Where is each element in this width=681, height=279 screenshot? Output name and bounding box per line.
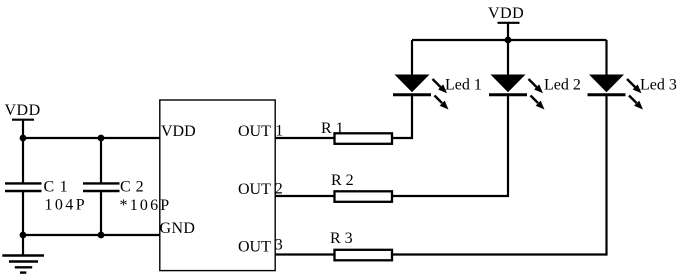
svg-text:C 2: C 2: [120, 178, 144, 195]
power symbol VDD (left): [5, 102, 41, 138]
junction at C2 top: [98, 135, 105, 142]
resistor R3: [330, 230, 392, 260]
svg-text:Led 3: Led 3: [640, 77, 677, 94]
capacitor C2: [83, 138, 171, 235]
svg-text:OUT: OUT: [238, 123, 271, 140]
IC U1 body: [160, 100, 275, 271]
wire: bus to Led3 anode: [605, 40, 607, 76]
junction at C1 bottom: [20, 232, 27, 239]
svg-text:104P: 104P: [45, 197, 88, 214]
svg-text:R 1: R 1: [321, 120, 344, 137]
svg-text:R 2: R 2: [331, 172, 354, 189]
ground: [2, 235, 44, 273]
resistor R2: [331, 172, 392, 202]
wire: bus to Led2 anode: [507, 40, 509, 76]
wire: ground rail to IC GND pin (y=235): [23, 234, 160, 236]
wire: R2 to Led2 cathode: [393, 95, 509, 196]
wire: OUT2 to R2: [275, 195, 334, 197]
wire: VDD rail to IC VDD pin (y=138): [23, 137, 160, 139]
junction at C2 bottom: [98, 232, 105, 239]
svg-text:VDD: VDD: [5, 102, 41, 119]
svg-text:VDD: VDD: [488, 5, 524, 22]
svg-text:R 3: R 3: [330, 230, 353, 247]
wire: VDD bus over LEDs (y=40): [412, 39, 607, 41]
wire: R1 to Led1 cathode: [393, 95, 413, 138]
svg-text:C 1: C 1: [44, 178, 69, 195]
svg-text:Led 2: Led 2: [544, 77, 581, 94]
junction at C1 top: [20, 135, 27, 142]
wire: bus to Led1 anode: [411, 40, 413, 76]
LED Led1: [393, 75, 482, 110]
svg-text:*106P: *106P: [120, 197, 172, 214]
svg-text:GND: GND: [160, 220, 196, 237]
power symbol VDD (top right): [488, 5, 524, 40]
wire: R3 to Led3 cathode: [393, 95, 607, 255]
svg-text:OUT: OUT: [238, 181, 271, 198]
wire: OUT1 to R1: [275, 137, 334, 139]
svg-text:3: 3: [275, 237, 283, 254]
junction at VDD stem: [505, 37, 512, 44]
svg-text:OUT: OUT: [238, 239, 271, 256]
svg-text:VDD: VDD: [161, 123, 196, 140]
LED Led3: [588, 75, 677, 110]
wire: OUT3 to R3: [275, 253, 334, 255]
svg-text:Led 1: Led 1: [445, 77, 482, 94]
capacitor C1: [5, 138, 87, 235]
resistor R1: [321, 120, 392, 144]
LED Led2: [489, 75, 581, 110]
